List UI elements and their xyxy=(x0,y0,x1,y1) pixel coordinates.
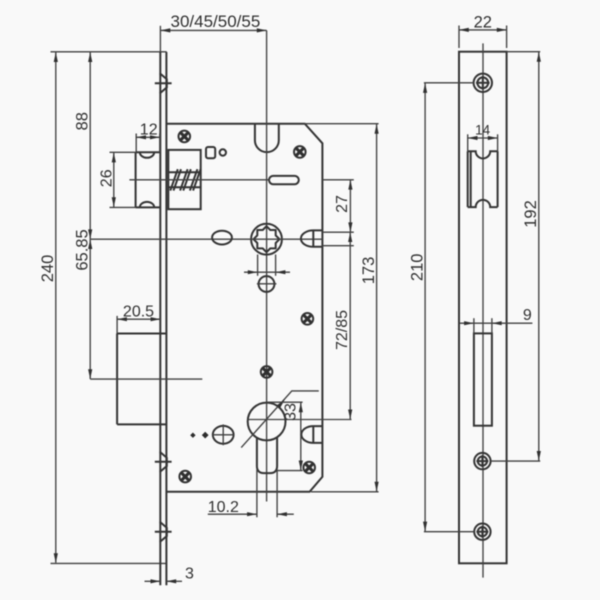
faceplate strip outline right view xyxy=(459,52,507,564)
faceplate left edge xyxy=(159,52,161,585)
svg-text:27: 27 xyxy=(334,195,351,213)
small hole below spindle xyxy=(257,276,277,292)
svg-text:10.2: 10.2 xyxy=(208,499,239,516)
left oval hole xyxy=(212,231,232,245)
svg-text:14: 14 xyxy=(475,123,491,138)
cam slot lower D shape xyxy=(301,426,322,443)
dimension 30/45/50/55 backset xyxy=(160,12,266,52)
svg-text:65.85: 65.85 xyxy=(73,229,91,270)
dimension 9 xyxy=(460,307,533,333)
svg-text:173: 173 xyxy=(360,257,378,285)
screw hole top xyxy=(474,74,492,92)
extension latch center right xyxy=(322,179,353,181)
svg-text:33: 33 xyxy=(283,403,300,421)
small square detail xyxy=(206,147,215,158)
svg-text:22: 22 xyxy=(474,13,492,31)
spindle width dimension arrows xyxy=(244,270,290,274)
spindle width extension lines xyxy=(257,255,259,276)
faceplate right edge xyxy=(165,52,167,585)
latch spring coils xyxy=(170,169,200,190)
dimension 22 xyxy=(459,13,507,48)
lock case outline xyxy=(167,124,323,492)
svg-text:210: 210 xyxy=(408,254,426,282)
cylinder stem extension lines xyxy=(256,470,258,518)
latch spring top line xyxy=(168,171,200,173)
latch bolt block xyxy=(136,152,161,207)
dimension 33 xyxy=(267,402,303,470)
screw boss top-left xyxy=(179,131,191,143)
dimension 88 xyxy=(73,52,92,239)
extension cylinder center right xyxy=(248,419,352,421)
svg-text:72/85: 72/85 xyxy=(334,310,351,350)
extension cam top right xyxy=(322,231,353,233)
small circle detail xyxy=(220,149,226,155)
dimension 26 latch height xyxy=(99,152,136,207)
faceplate break mark top xyxy=(155,73,172,93)
svg-text:12: 12 xyxy=(140,121,158,138)
dimension 65.85 xyxy=(73,229,92,379)
lower oval hole xyxy=(213,424,235,445)
latch centerline xyxy=(129,179,269,181)
screw hole middle xyxy=(474,453,490,469)
dimension 10.2 xyxy=(208,499,294,517)
slot above spindle xyxy=(269,176,299,184)
faceplate break mark bottom xyxy=(155,522,172,542)
svg-text:88: 88 xyxy=(73,112,91,130)
svg-text:9: 9 xyxy=(523,307,532,324)
screw boss on axis xyxy=(261,366,273,378)
cam slot upper D shape xyxy=(301,230,323,246)
dimension 192 xyxy=(491,52,541,461)
spindle centerline xyxy=(90,238,322,240)
extension line bottom left xyxy=(51,562,167,564)
screw boss right mid xyxy=(302,313,314,325)
dimension 27 xyxy=(334,180,353,232)
euro cylinder circle xyxy=(248,403,286,441)
latch tail block xyxy=(168,150,200,209)
latch cutout xyxy=(468,151,498,207)
screw boss bottom-right xyxy=(303,462,315,474)
svg-text:192: 192 xyxy=(522,200,540,228)
top U notch xyxy=(255,124,279,152)
strip centerline xyxy=(482,43,484,577)
dimension 72/85 xyxy=(334,232,352,419)
faceplate break mark middle xyxy=(155,452,172,472)
deadbolt block xyxy=(117,334,166,425)
svg-text:30/45/50/55: 30/45/50/55 xyxy=(170,12,260,31)
two small dots xyxy=(190,433,195,438)
dimension 12 latch width xyxy=(136,121,160,152)
extension line top left xyxy=(51,51,167,53)
dimension 210 xyxy=(408,83,474,532)
spindle follower outer circle xyxy=(251,224,282,255)
dimension 14 xyxy=(468,123,498,152)
dimension 173 xyxy=(305,124,379,492)
screw boss bottom-left xyxy=(179,471,191,483)
svg-text:20.5: 20.5 xyxy=(123,303,154,320)
center axis vertical xyxy=(266,30,268,501)
dimension 20.5 deadbolt width xyxy=(117,303,160,333)
latch spring bottom line xyxy=(168,186,200,188)
spindle follower star squares xyxy=(254,226,280,252)
svg-text:26: 26 xyxy=(99,169,116,187)
svg-text:240: 240 xyxy=(39,255,57,283)
cylinder leader diagonal xyxy=(241,391,319,448)
dimension 3 faceplate thickness xyxy=(145,566,194,584)
screw boss top-right xyxy=(294,146,306,158)
screw hole bottom xyxy=(474,524,490,540)
deadbolt centerline xyxy=(90,378,202,380)
euro cylinder stem xyxy=(257,438,277,473)
extension cam bottom right xyxy=(322,245,353,247)
dimension 240 xyxy=(39,52,58,563)
deadbolt slot xyxy=(474,333,492,425)
svg-text:3: 3 xyxy=(185,566,194,583)
